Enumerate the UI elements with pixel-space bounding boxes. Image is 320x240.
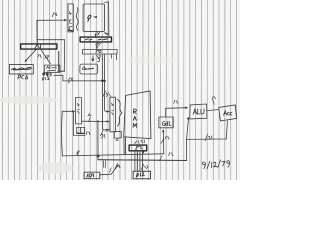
wire branch from W1 down to temp latch: [37, 40, 65, 71]
RAM label vertical: [133, 109, 137, 128]
ALU box: [190, 104, 207, 119]
register PC box: [9, 65, 33, 74]
CTL box: [159, 117, 173, 128]
wire output bus corner down to rail L2: [186, 139, 188, 160]
wire from output bus up into ALU with arrow: [187, 118, 189, 140]
width label 16 on ALU-ACC wire: [212, 96, 216, 104]
control ROM (large box): [83, 4, 104, 31]
diagonal wire to PC with arrow, label 1b: [25, 49, 36, 61]
bold arrows below incrementer: [43, 72, 45, 75]
wire I/O box to rail L2 with arrow: [100, 165, 118, 175]
branch wire down to latch under A: [74, 111, 85, 135]
register stack A (tall box): [75, 98, 81, 124]
label PC A: [18, 75, 28, 79]
width slash F on A-B wire: [88, 114, 91, 122]
scribble inside PC: [12, 67, 32, 69]
incrementer small box: [44, 65, 60, 72]
width label 1b on CTL-ALU wire: [174, 100, 178, 103]
latch box below reg B: [114, 132, 121, 138]
register B (tall box): [110, 97, 116, 132]
label b12 under arrows: [42, 77, 49, 80]
register IR (narrow vertical box): [68, 4, 73, 32]
label 1b at latch: [86, 131, 90, 134]
slash between rails: [159, 156, 162, 161]
junction blob on rail L1: [97, 155, 100, 158]
output bus horizontal: [187, 138, 227, 140]
wire L1 up into CTL with arrow: [162, 130, 165, 154]
arrowhead DB to rail: [142, 151, 144, 154]
junction blob bus meets v1 v2: [102, 80, 105, 82]
width scribbles near junction wire: [100, 129, 108, 138]
decode bar register: [83, 49, 117, 54]
latch box under reg A: [77, 127, 85, 133]
arrow MIR to decode bar width 4: [96, 42, 98, 49]
arrow ROM to MIR with width 16: [95, 32, 98, 37]
bus lines DB down to driver: [135, 151, 143, 171]
scribble label inside rounded box: [82, 67, 93, 70]
temp latch open box: [58, 52, 65, 72]
bus driver box bottom: [133, 171, 150, 178]
register MIR (bold bar): [80, 37, 111, 42]
rail L2: [98, 159, 187, 162]
wire v2 to reg B upper arrow: [105, 54, 110, 111]
arrows 4 9 below decode bar: [92, 56, 94, 62]
width slashes 4b on bus lines: [141, 164, 147, 169]
diagonal wire to adder with label 7b: [41, 49, 51, 63]
main bus left horizontal: [54, 75, 103, 81]
register DB (bold bar under RAM): [129, 145, 147, 151]
micro-sequencer rounded box: [80, 64, 98, 74]
width slash 1b on CTL wire: [161, 136, 169, 143]
slash 1b on L2: [115, 163, 120, 168]
RAM box: [124, 91, 151, 139]
wire from bottom rail up into reg A: [62, 111, 75, 156]
brace right of reg B: [117, 99, 121, 126]
wire CTL top to ALU with arrow: [166, 108, 188, 117]
squiggle bus mark right of IR: [76, 8, 78, 31]
small marks 12 under L2: [103, 161, 105, 168]
stub wires under decode bar right: [111, 54, 116, 60]
label 16 on wire W1: [52, 13, 57, 17]
date 9/12/79: [202, 160, 229, 169]
strip line right of ROM: [105, 2, 109, 34]
label inside ROM: [88, 15, 91, 21]
corner tick near IR bottom: [69, 27, 72, 30]
wires RAM bottom to rail L1: [124, 137, 126, 154]
wire W1 top-left into IR: [37, 20, 67, 44]
width label 16 under RAM: [135, 140, 145, 144]
wire ALU to ACC: [207, 110, 218, 111]
rail L1: [62, 154, 163, 156]
label 12 on bus: [68, 78, 73, 83]
width slash 4 on v1: [103, 91, 107, 97]
wire v1 long vertical to reg B lower arrow: [102, 54, 109, 130]
wire junction down to rail L2: [97, 121, 99, 159]
junction dot on A-B wire: [97, 120, 99, 122]
ACC box: [219, 105, 237, 121]
junction mark y on L1: [77, 151, 80, 156]
wire ACC down to output bus: [226, 121, 227, 139]
width slash 4 at reg B top: [107, 92, 111, 97]
width slash 2b on output bus: [205, 134, 212, 141]
register MAR (bold wide bar): [21, 44, 57, 49]
I/O box bottom left: [84, 172, 100, 179]
wire reg A to reg B with arrow: [82, 120, 109, 122]
label 1b on rail L1 end: [169, 152, 174, 155]
